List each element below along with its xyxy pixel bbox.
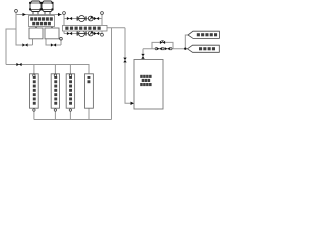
node circles below load boxes [33,109,72,111]
pump label box [63,25,108,31]
valve row2 right [94,32,99,35]
bypass valve with handle [160,41,165,44]
wire: left drop from tee x16 down and right to rect1 stub [16,15,33,46]
valve row2 left [67,32,72,35]
load box 3 [66,74,74,108]
pump P1 [77,16,87,22]
node: pump left bus top [63,12,66,15]
load box 4 [85,74,94,108]
load box 1 [30,74,39,108]
valve on rect2 outlet [51,43,56,46]
wire: pump row 2 [64,33,102,35]
wire: pump suction branch y27.8 [102,27,125,29]
wire: HX vessel feet [33,12,50,15]
node circles on load box tops [33,74,72,76]
HX label box [29,16,55,27]
makeup line node 3 [170,48,172,50]
wire: tank top valve line and makeup main line y48.5 [143,49,188,60]
wire: HX top header line y14.5 [16,12,62,14]
valve row1 right [94,17,99,20]
strainer rect 2 [45,28,59,39]
node: rect2 outlet circle [60,37,63,40]
valve row1 left [67,17,72,20]
motor M1 [88,16,93,21]
node: pump right bus top [101,12,104,15]
heat exchanger vessel 2 [41,1,53,12]
junction dot [184,48,186,50]
makeup line node 1 [155,48,157,50]
wire: supply bus y64.5 ending down into box4 [6,65,89,74]
wire: return riser x112 [111,28,113,120]
wire: bottom return bus y119.5 [34,119,112,121]
expansion tank [134,60,163,110]
wire: supply drops to load boxes [34,65,71,74]
pump P2 [77,31,87,37]
makeup valve 1 [157,47,162,50]
heat exchanger vessel 1 [29,1,41,12]
wire: bypass loop over makeup valves [152,42,173,48]
wire: tank connection drop x125 with elbow [125,28,131,104]
wire: rect2 bottom loop with stub [46,39,61,45]
wire: branch y29 left and down left supply riser x6 [6,29,16,65]
wire: lower rect top stubs [36,27,52,29]
valve on rect1 outlet [22,43,27,46]
wire: pump left bus x64 [63,13,65,34]
makeup valve 2 [165,47,170,50]
pennant label 1 [188,31,219,38]
load box 2 [51,74,59,108]
node: left header circle [15,10,18,13]
wire: drains from load boxes [34,108,89,119]
motor M2 [88,31,93,36]
valve on supply bus [16,63,21,66]
node: pump right bus bottom [101,33,104,36]
valve on tank suction drop [123,58,126,63]
tank top valve [141,54,144,59]
pennant label 2 [188,45,220,52]
makeup line node 2 [162,48,164,50]
wire: pump row 1 [64,18,102,20]
arrow before pump bus [58,13,61,16]
wire: condensate makeup line from pennant1 [185,35,188,49]
strainer rect 1 [29,28,43,39]
arrow on header line [23,13,26,16]
arrow into tank [131,102,135,105]
wire: pump right bus x102 [101,13,103,34]
